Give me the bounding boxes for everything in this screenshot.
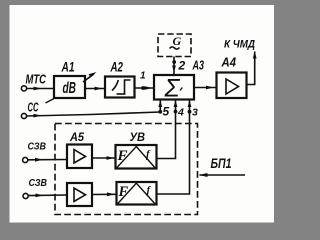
label A3	[192, 58, 205, 73]
label A4	[221, 55, 237, 70]
terminal SZV upper input circle	[23, 157, 28, 162]
block A5 lower amplifier	[67, 183, 92, 206]
terminal CC input circle	[21, 113, 26, 118]
block A5 upper amplifier	[67, 145, 92, 169]
generator G dashed block	[158, 34, 191, 57]
svg-text:4: 4	[177, 107, 184, 119]
pin 3 of A3 wire from UB lower output	[157, 100, 192, 195]
label A1	[61, 59, 75, 75]
label A2	[110, 59, 123, 75]
svg-text:F: F	[117, 148, 128, 164]
label 1	[140, 71, 146, 82]
label 4	[177, 107, 184, 119]
label УВ	[130, 130, 146, 144]
svg-text:СЗВ: СЗВ	[29, 177, 48, 189]
svg-text:МТС: МТС	[26, 73, 47, 87]
svg-text:А2: А2	[110, 59, 123, 75]
node 4 junction dot	[174, 110, 178, 114]
wire BP1 supply with left arrowhead	[199, 173, 245, 177]
svg-text:СЗВ: СЗВ	[28, 141, 47, 153]
label 3	[192, 107, 198, 119]
svg-text:БП1: БП1	[211, 156, 232, 171]
label A5	[69, 130, 84, 144]
wire SZV upper to A5	[28, 158, 67, 162]
svg-text:5: 5	[163, 105, 170, 119]
svg-text:А4: А4	[221, 55, 237, 70]
svg-text:Σ: Σ	[164, 75, 181, 103]
svg-text:dB: dB	[63, 80, 77, 97]
wire G to A3 with down arrowhead	[172, 57, 176, 75]
label МТС	[26, 73, 47, 87]
pin 4 of A3 wire from UB upper output	[157, 100, 178, 159]
svg-text:А3: А3	[192, 58, 205, 73]
wire A5 lower to F lower	[92, 192, 117, 196]
wire CC to node 5 with arrowhead	[27, 112, 161, 118]
svg-text:СС: СС	[28, 101, 40, 115]
terminal SZV lower input circle	[23, 193, 28, 198]
node 5 junction dot	[158, 110, 162, 114]
label 2	[178, 59, 186, 73]
label СЗВ lower	[29, 177, 48, 189]
block A4 amplifier	[217, 73, 247, 99]
wire SZV lower to A5	[28, 194, 67, 198]
wire A5 upper to F upper	[92, 156, 116, 160]
block A3 summator	[154, 75, 194, 103]
node 3 junction dot	[188, 110, 192, 114]
control leader line from CC to A1	[46, 99, 55, 104]
node 2 junction dot	[172, 60, 176, 64]
svg-text:3: 3	[192, 107, 198, 119]
svg-text:G: G	[173, 34, 182, 48]
label СС	[28, 101, 40, 115]
block UB lower F/f converter	[117, 182, 157, 205]
wire A2 to A3	[135, 86, 155, 90]
label 5	[163, 105, 170, 119]
block A1 attenuator	[54, 76, 85, 98]
svg-text:К ЧМД: К ЧМД	[224, 39, 255, 51]
svg-text:А5: А5	[69, 130, 84, 144]
label К ЧМД	[224, 39, 255, 51]
output wire A4 to K ChMD with up arrowhead	[247, 51, 257, 85]
dashed enclosure UB unit	[55, 124, 198, 215]
wire MTC to A1 with arrowhead	[27, 87, 54, 91]
label БП1	[211, 156, 232, 171]
node 1 junction dot	[141, 86, 145, 90]
variability arrow on A1	[83, 72, 97, 82]
svg-text:2: 2	[178, 59, 186, 73]
svg-text:УВ: УВ	[130, 130, 146, 144]
block A2 limiter	[105, 77, 135, 98]
wire A3 to A4	[194, 86, 217, 90]
wire A1 to A2 with arrowhead	[85, 87, 105, 91]
terminal MTC input circle	[21, 86, 26, 91]
svg-text:1: 1	[140, 71, 146, 82]
svg-text:А1: А1	[61, 59, 75, 75]
pin 5 of A3 with up arrowhead	[158, 100, 162, 113]
block UB upper F/f converter	[116, 145, 157, 169]
label СЗВ upper	[28, 141, 47, 153]
svg-text:F: F	[118, 184, 129, 200]
